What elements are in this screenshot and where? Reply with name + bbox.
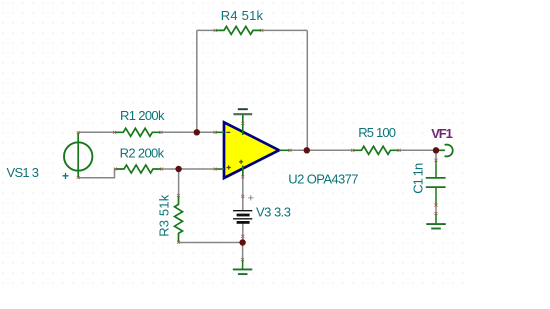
U2 pin out (279, 149, 290, 151)
svg-text:VF1: VF1 (431, 126, 453, 141)
resistor R3 (vertical) (175, 194, 183, 244)
svg-text:C1 1n: C1 1n (410, 163, 425, 194)
wire U2 ground pin down to V3 plus terminal (242, 170, 244, 210)
svg-text:V3 3.3: V3 3.3 (256, 204, 291, 219)
svg-text:R3 51k: R3 51k (157, 194, 172, 237)
ground symbol below C1 (426, 212, 446, 229)
svg-text:R5 100: R5 100 (358, 125, 396, 140)
svg-text:+: + (248, 193, 254, 205)
voltage probe VF1 (439, 145, 453, 157)
ground symbol below V3 (233, 258, 253, 274)
svg-text:R4 51k: R4 51k (221, 8, 264, 23)
capacitor C1 (426, 159, 446, 207)
U2 pin in- (215, 131, 224, 133)
node U2 out / feedback / R5 (304, 147, 310, 153)
op-amp U2 (214, 114, 292, 178)
node VF1 / R5 / C1 (433, 147, 439, 153)
svg-text:R1 200k: R1 200k (120, 108, 165, 123)
wire feedback left vertical (196, 30, 198, 132)
wire V3 minus terminal down to ground node (242, 223, 244, 243)
resistor R2 (114, 165, 163, 173)
node V3 / R3 / ground (239, 239, 245, 245)
node feedback / R1 / U2 in- (194, 129, 200, 135)
wire feedback top left segment (197, 29, 216, 31)
voltage source VS1 (64, 131, 92, 179)
wire R1 right pin to U2 inverting input (through feedback node) (162, 131, 216, 133)
wire R3 node down to R3 top pin (178, 169, 180, 195)
wire R5 right pin to node VF1 (399, 149, 436, 151)
wire U2 output to R5 left pin (290, 149, 353, 151)
resistor R1 (113, 128, 162, 136)
wire R3 bottom pin to ground node (179, 242, 243, 244)
wire R2 right pin to U2 non-inverting input (through R3 node) (161, 168, 215, 170)
resistor R4 (214, 26, 264, 34)
wire feedback right vertical to output node (306, 30, 308, 150)
svg-text:U2 OPA4377: U2 OPA4377 (288, 172, 358, 187)
U2 pin V+ (242, 114, 244, 135)
wire VS1 top to R1 left pin (78, 131, 114, 133)
svg-text:VS1 3: VS1 3 (7, 165, 40, 180)
wire C1 bottom plate to ground symbol (435, 187, 437, 206)
wire feedback top right segment (262, 29, 308, 31)
node R2 / R3 / U2 in+ (175, 166, 181, 172)
U2 pin in+ (215, 168, 224, 170)
U2 pin gnd (242, 166, 244, 178)
wire VS1 bottom to R2 left pin (78, 169, 115, 178)
resistor R5 (351, 146, 400, 154)
power rail symbol above U2 (233, 109, 252, 114)
wire ground node down to ground symbol (242, 243, 244, 263)
svg-text:R2 200k: R2 200k (120, 146, 165, 161)
svg-text:+: + (62, 169, 69, 183)
wire node VF1 down to C1 top plate (435, 150, 437, 161)
battery V3 (233, 193, 254, 238)
